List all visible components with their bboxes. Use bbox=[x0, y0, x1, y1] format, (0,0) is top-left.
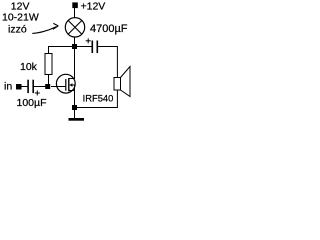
svg-text:izzó: izzó bbox=[8, 24, 27, 36]
junction gate node bbox=[45, 84, 50, 89]
capacitor C2 4700uF left plate bbox=[92, 41, 94, 54]
speaker LS1 driver box bbox=[114, 78, 121, 91]
wire source node to speaker return bbox=[77, 90, 117, 108]
wire resistor bottom to gate node bbox=[48, 75, 50, 87]
C2 polarity plus bbox=[86, 38, 91, 43]
mosfet Q1 drain lead bbox=[69, 48, 75, 79]
svg-text:+12V: +12V bbox=[81, 1, 106, 13]
svg-text:IRF540: IRF540 bbox=[83, 92, 114, 103]
mosfet Q1 channel bar bbox=[68, 78, 70, 91]
speaker LS1 cone bbox=[121, 67, 131, 97]
wire input terminal to C1 bbox=[22, 86, 28, 88]
wire C2 to speaker bbox=[98, 47, 117, 78]
lamp LA1 circle bbox=[65, 18, 84, 37]
mosfet Q1 body lead bbox=[72, 85, 75, 91]
svg-text:in: in bbox=[4, 81, 12, 93]
wire lamp to drain node bbox=[74, 37, 76, 45]
resistor R1 10k body bbox=[45, 54, 52, 75]
C1 polarity plus bbox=[35, 91, 40, 96]
wire drain node to C2 bbox=[77, 46, 92, 48]
capacitor C2 4700uF right plate bbox=[97, 41, 99, 54]
wire gate node to mosfet gate bbox=[51, 86, 66, 88]
wire C1 to gate node bbox=[34, 86, 46, 88]
mosfet Q1 body circle bbox=[56, 74, 75, 93]
annotation arrow to lamp bbox=[32, 23, 58, 33]
capacitor C1 100uF left plate bbox=[27, 80, 29, 93]
mosfet Q1 gate bar bbox=[65, 79, 67, 91]
+12V supply terminal bbox=[72, 2, 78, 8]
ground bbox=[69, 118, 85, 121]
wire supply terminal to lamp bbox=[74, 8, 76, 19]
wire drain node to resistor top bbox=[49, 47, 73, 55]
svg-text:10k: 10k bbox=[20, 61, 38, 73]
mosfet Q1 source lead bbox=[69, 91, 75, 106]
mosfet Q1 body arrow bbox=[69, 83, 72, 87]
junction drain node bbox=[72, 44, 77, 49]
lamp LA1 cross bbox=[68, 21, 82, 35]
svg-text:4700µF: 4700µF bbox=[90, 23, 128, 35]
svg-text:10-21W: 10-21W bbox=[2, 12, 39, 24]
wire source node to ground bbox=[74, 110, 76, 119]
input terminal bbox=[16, 84, 22, 90]
junction source node bbox=[72, 105, 77, 110]
capacitor C1 100uF right plate bbox=[32, 80, 34, 93]
svg-text:100µF: 100µF bbox=[17, 97, 47, 109]
